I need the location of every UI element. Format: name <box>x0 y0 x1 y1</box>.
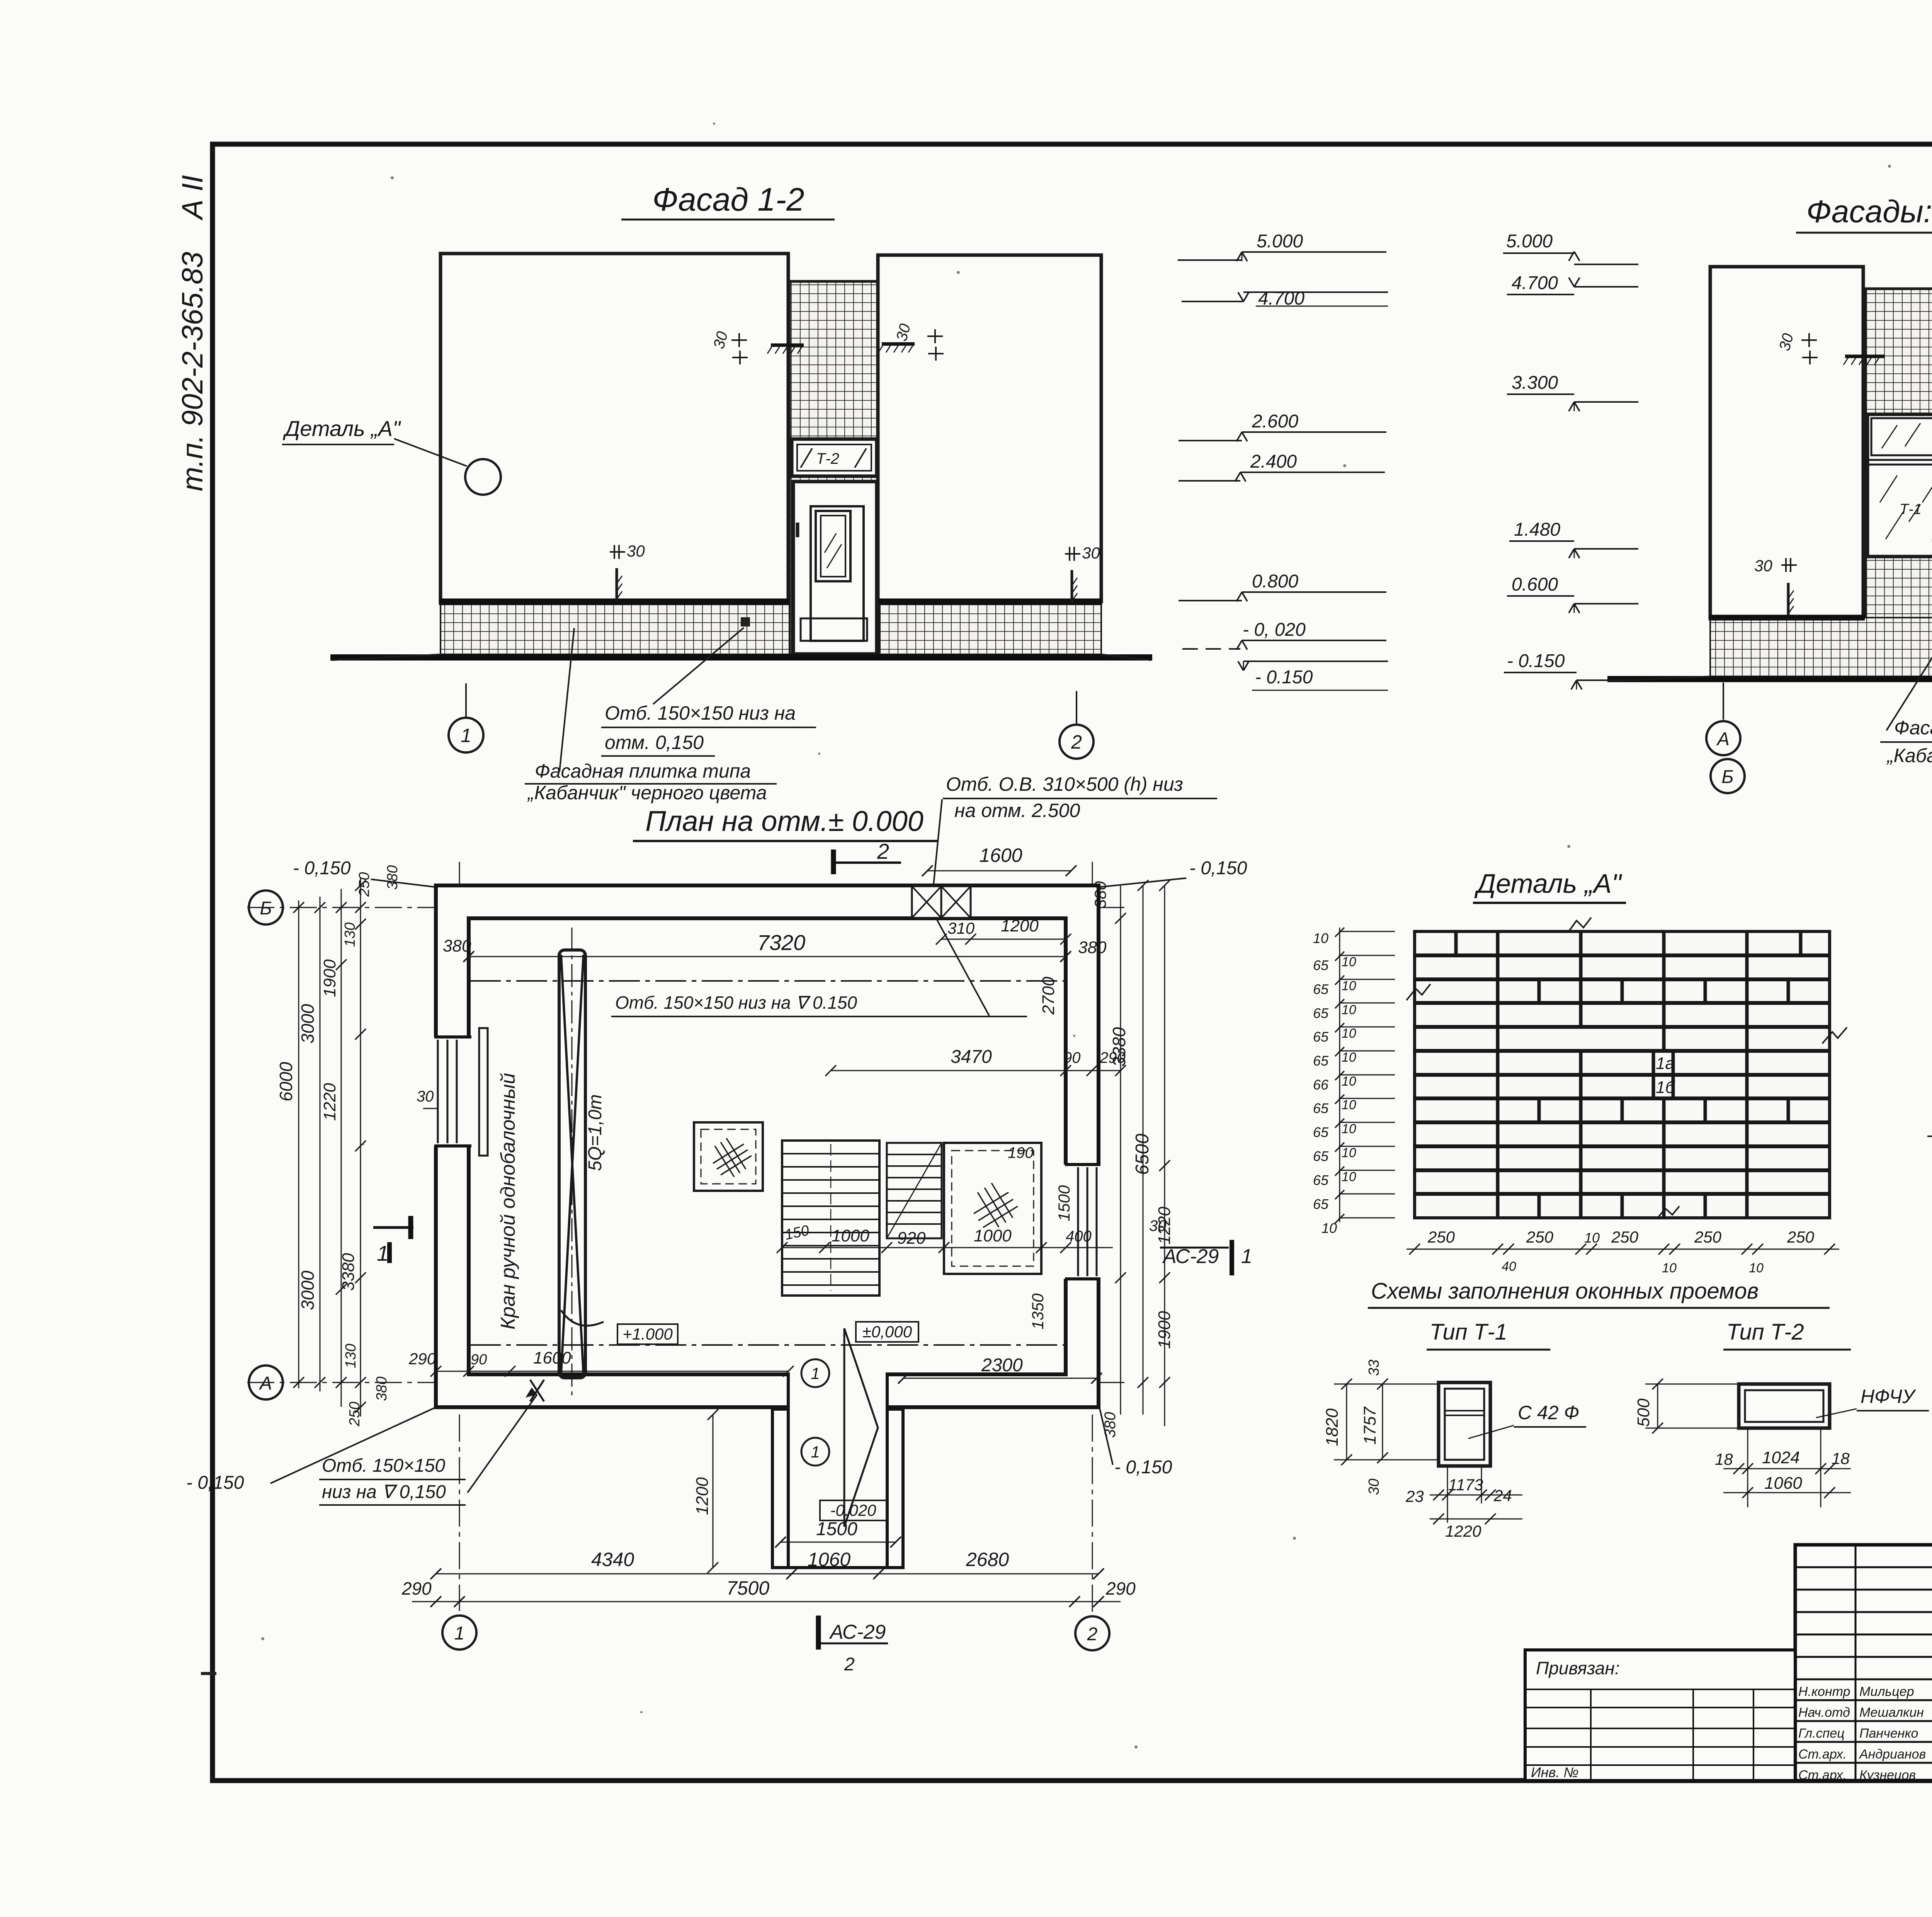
brick vertical joints row4 <box>1498 1003 1747 1027</box>
level box 0.000 <box>856 1322 918 1342</box>
label Отб.150x150 низ <box>601 702 816 756</box>
svg-text:Кран ручной однобалочный: Кран ручной однобалочный <box>497 1073 519 1330</box>
svg-text:1500: 1500 <box>1055 1185 1073 1221</box>
svg-text:65: 65 <box>1313 1029 1329 1045</box>
svg-text:- 0,150: - 0,150 <box>1114 1457 1172 1478</box>
crane label <box>497 1073 605 1330</box>
elevation mark 2.400 <box>1179 451 1385 482</box>
fold mark left <box>201 1672 216 1675</box>
svg-text:250: 250 <box>1611 1228 1639 1246</box>
svg-text:10: 10 <box>1342 955 1356 969</box>
left wall panel AB <box>1709 267 1865 618</box>
svg-text:А: А <box>1716 729 1730 749</box>
svg-text:Тип Т-1: Тип Т-1 <box>1430 1319 1507 1345</box>
right dim chain lines <box>1115 880 1170 1426</box>
svg-text:1220: 1220 <box>320 1083 339 1121</box>
svg-text:Ст.арх.: Ст.арх. <box>1798 1747 1847 1762</box>
dim 2300 <box>898 1355 1102 1384</box>
svg-text:290: 290 <box>1105 1578 1136 1599</box>
svg-text:Н.контр: Н.контр <box>1798 1684 1850 1699</box>
svg-text:Инв. №: Инв. № <box>1531 1764 1578 1780</box>
svg-text:10: 10 <box>1342 1074 1356 1089</box>
elevation mark 0.600 AB <box>1507 574 1638 613</box>
marker 30 lower-left AB <box>1754 557 1797 615</box>
svg-text:на отм. 2.500: на отм. 2.500 <box>954 800 1080 821</box>
svg-text:10: 10 <box>1342 979 1356 993</box>
svg-text:30: 30 <box>627 542 645 560</box>
svg-text:1820: 1820 <box>1323 1408 1342 1446</box>
side stamp text <box>176 175 209 491</box>
brick panel outline <box>1415 931 1830 1218</box>
svg-text:3000: 3000 <box>298 1270 318 1310</box>
svg-text:1.480: 1.480 <box>1514 519 1560 540</box>
axis circle 1 bottom <box>442 1616 476 1650</box>
svg-text:10: 10 <box>1342 1098 1356 1112</box>
svg-text:290: 290 <box>408 1350 436 1368</box>
left wall panel <box>439 254 790 602</box>
elevation mark 5.000 AB <box>1503 231 1638 264</box>
svg-text:65: 65 <box>1313 1100 1329 1116</box>
elevation mark 1.480 AB <box>1509 519 1638 558</box>
elevation mark 5.000 <box>1178 231 1386 261</box>
svg-text:250: 250 <box>1427 1228 1455 1246</box>
right wall panel <box>876 255 1102 602</box>
svg-text:Кузнецов: Кузнецов <box>1859 1768 1916 1783</box>
title Тип Т-2 <box>1723 1319 1851 1350</box>
svg-text:2: 2 <box>844 1654 855 1675</box>
label Отб 150х150 низ на 0.150 top <box>611 920 1027 1016</box>
svg-text:Т-1: Т-1 <box>1900 501 1922 518</box>
svg-text:250: 250 <box>1526 1228 1554 1246</box>
brick vertical joints row6 with 1a <box>1498 1051 1747 1075</box>
plinth hole 150x150 <box>653 617 750 704</box>
brick vertical joints row7 with 1б <box>1498 1075 1747 1098</box>
label Фасадная плитка AB <box>1880 653 1932 766</box>
svg-text:2.600: 2.600 <box>1252 411 1298 432</box>
svg-text:2680: 2680 <box>966 1549 1009 1570</box>
svg-text:Б: Б <box>1721 767 1733 787</box>
elevation mark 3.300 AB <box>1507 373 1638 411</box>
plinth right <box>880 604 1101 654</box>
corner level -0.150 bottom-left <box>186 1408 435 1493</box>
svg-text:90: 90 <box>1063 1049 1081 1066</box>
marker 30 lower-left <box>610 542 645 601</box>
svg-text:65: 65 <box>1313 1196 1329 1212</box>
marker 30 upper-left AB <box>1776 332 1818 364</box>
svg-text:0.600: 0.600 <box>1512 574 1558 595</box>
svg-text:- 0,150: - 0,150 <box>186 1473 244 1493</box>
plan inner wall <box>469 918 1066 1374</box>
svg-text:С 42 Ф: С 42 Ф <box>1518 1402 1579 1423</box>
stairs flight 2 <box>887 1143 942 1238</box>
detail A left dims <box>1313 928 1395 1236</box>
svg-text:500: 500 <box>1634 1398 1653 1427</box>
svg-text:1а: 1а <box>1656 1054 1675 1073</box>
svg-text:250: 250 <box>1694 1228 1722 1246</box>
svg-text:Мильцер: Мильцер <box>1859 1684 1914 1699</box>
svg-text:30: 30 <box>417 1088 434 1105</box>
svg-text:4340: 4340 <box>591 1549 634 1570</box>
svg-text:1: 1 <box>811 1364 820 1382</box>
dim 1200 porch <box>693 1409 718 1573</box>
svg-text:2.400: 2.400 <box>1250 451 1297 472</box>
left dim texts <box>276 865 439 1427</box>
svg-text:1б: 1б <box>1656 1078 1675 1097</box>
mark АС-29 2 bottom <box>818 1616 888 1675</box>
ramp triangle and arrow <box>801 1328 878 1527</box>
svg-text:Мешалкин: Мешалкин <box>1859 1705 1924 1720</box>
svg-text:т.п. 902-2-365.83 А II: т.п. 902-2-365.83 А II <box>176 175 209 491</box>
level box +1.000 <box>617 1324 678 1344</box>
T-1 dims <box>1323 1360 1522 1540</box>
callout Деталь А <box>282 416 501 495</box>
svg-text:380: 380 <box>374 1377 390 1401</box>
elevation mark -0.150 <box>1238 661 1388 690</box>
svg-text:3380: 3380 <box>339 1253 358 1291</box>
brick vertical joints row3 half bricks <box>1498 979 1788 1003</box>
svg-text:7320: 7320 <box>757 930 806 955</box>
svg-text:1220: 1220 <box>1445 1522 1481 1540</box>
svg-text:1: 1 <box>454 1623 465 1644</box>
svg-text:Нач.отд: Нач.отд <box>1798 1705 1850 1720</box>
svg-text:1060: 1060 <box>808 1549 850 1570</box>
marker 30 lower-right <box>1065 544 1100 603</box>
axis circle А left <box>249 1365 283 1399</box>
hatch flag left AB <box>1844 356 1885 365</box>
top wall vent openings <box>912 886 971 918</box>
svg-text:290: 290 <box>1099 1049 1126 1066</box>
label НФЧУ <box>1816 1386 1929 1418</box>
svg-text:3.300: 3.300 <box>1512 373 1558 393</box>
svg-text:1757: 1757 <box>1361 1406 1379 1445</box>
svg-text:Отб. 150×150: Отб. 150×150 <box>322 1456 446 1476</box>
svg-text:7500: 7500 <box>726 1577 769 1599</box>
svg-text:10: 10 <box>1321 1220 1337 1236</box>
svg-text:3470: 3470 <box>951 1047 992 1067</box>
axis line А horizontal <box>247 1382 1128 1383</box>
svg-text:250: 250 <box>347 1402 363 1427</box>
break marks brick panel <box>1406 918 1847 1218</box>
svg-text:2: 2 <box>877 839 889 863</box>
svg-text:1000: 1000 <box>974 1226 1012 1245</box>
svg-text:Панченко: Панченко <box>1859 1726 1918 1741</box>
window T-1 <box>1867 414 1932 557</box>
svg-text:1060: 1060 <box>1764 1474 1802 1493</box>
marker 30 upper-right <box>893 322 944 361</box>
svg-text:Отб. 150×150 низ на: Отб. 150×150 низ на <box>605 702 796 724</box>
svg-text:Фасад 1-2: Фасад 1-2 <box>652 181 804 218</box>
svg-text:„Кабанчик" черного цвета: „Кабанчик" черного цвета <box>1886 745 1932 766</box>
level box -0.020 <box>820 1500 886 1520</box>
svg-text:380: 380 <box>443 936 471 955</box>
scan speckles <box>261 123 1932 1748</box>
svg-text:АС-29: АС-29 <box>1162 1245 1219 1268</box>
svg-text:5.000: 5.000 <box>1257 231 1303 252</box>
porch walls <box>772 1409 903 1568</box>
svg-text:Схемы заполнения оконных пр: Схемы заполнения оконных проемов <box>1371 1279 1759 1304</box>
dim bottom inner 290 90 1600 <box>408 1348 794 1377</box>
right dim texts <box>1029 977 1174 1438</box>
svg-text:Фасадная плитка типа: Фасадная плитка типа <box>535 760 751 782</box>
svg-text:5Q=1,0т: 5Q=1,0т <box>585 1094 605 1171</box>
svg-text:30: 30 <box>1366 1479 1382 1495</box>
binding table Привязан <box>1525 1650 1795 1781</box>
svg-text:- 0,150: - 0,150 <box>1189 858 1247 878</box>
title Фасады А-Б и Б-А <box>1796 194 1932 233</box>
svg-text:Фасады: А-Б и Б-А: Фасады: А-Б и Б-А <box>1806 194 1932 229</box>
brick vertical joints row8 half bricks <box>1498 1098 1788 1122</box>
svg-text:- 0.150: - 0.150 <box>1507 651 1565 671</box>
svg-text:130: 130 <box>342 923 358 947</box>
svg-text:3000: 3000 <box>298 1004 318 1044</box>
dim 4340 1060 2680 <box>430 1549 1104 1579</box>
svg-text:30: 30 <box>1082 544 1100 562</box>
svg-text:65: 65 <box>1313 957 1329 973</box>
axis circle Б left <box>249 890 283 924</box>
svg-text:23: 23 <box>1405 1487 1424 1505</box>
elevation mark 2.600 <box>1179 411 1386 441</box>
svg-text:10: 10 <box>1662 1261 1677 1275</box>
svg-text:Отб. О.В. 310×500 (h) низ: Отб. О.В. 310×500 (h) низ <box>946 773 1183 795</box>
tile pier strip AB <box>1865 289 1932 677</box>
brick horizontal joints <box>1415 955 1830 1194</box>
svg-text:10: 10 <box>1342 1003 1356 1017</box>
svg-text:НФЧУ: НФЧУ <box>1861 1386 1917 1407</box>
section mark 1 left <box>373 1216 413 1265</box>
title Деталь А <box>1473 868 1626 903</box>
brick vertical joints row11 <box>1498 1170 1747 1194</box>
svg-text:1200: 1200 <box>693 1477 712 1515</box>
svg-text:380: 380 <box>384 865 401 890</box>
brick vertical joints row10 <box>1498 1146 1747 1170</box>
svg-text:18: 18 <box>1715 1450 1733 1468</box>
title Схемы заполнения <box>1368 1279 1830 1308</box>
svg-text:6500: 6500 <box>1132 1134 1153 1175</box>
svg-text:- 0,150: - 0,150 <box>293 858 351 878</box>
dim 290 7500 290 <box>401 1577 1136 1607</box>
door <box>793 482 877 654</box>
elevation mark -0,020 <box>1182 620 1386 650</box>
svg-text:1024: 1024 <box>1762 1448 1800 1467</box>
left dim chain lines <box>293 877 366 1416</box>
plan outer wall <box>436 885 1099 1407</box>
axis line 2 vertical <box>1092 862 1093 1612</box>
brick vertical joints row9 <box>1498 1122 1747 1146</box>
svg-text:400: 400 <box>1066 1228 1092 1245</box>
svg-text:1: 1 <box>461 725 471 746</box>
svg-text:+1.000: +1.000 <box>622 1325 673 1343</box>
svg-text:Отб. 150×150 низ на ∇ 0.150: Отб. 150×150 низ на ∇ 0.150 <box>615 993 857 1013</box>
crane runway axis <box>571 928 573 1399</box>
svg-text:10: 10 <box>1342 1170 1356 1184</box>
svg-text:250: 250 <box>1787 1228 1815 1246</box>
svg-text:30: 30 <box>1149 1217 1167 1234</box>
section mark 2 top <box>833 839 901 874</box>
svg-text:190: 190 <box>1008 1144 1034 1161</box>
svg-text:10: 10 <box>1313 930 1328 946</box>
svg-text:65: 65 <box>1313 981 1329 997</box>
svg-text:Т-2: Т-2 <box>816 450 839 467</box>
svg-text:1: 1 <box>1241 1245 1252 1268</box>
label Отб 150х150 bottom <box>319 1380 544 1505</box>
label С42Ф <box>1468 1402 1586 1439</box>
svg-text:130: 130 <box>343 1344 359 1368</box>
svg-text:низ на ∇ 0,150: низ на ∇ 0,150 <box>322 1482 446 1502</box>
svg-text:Фасадная плитка типа: Фасадная плитка типа <box>1894 717 1932 739</box>
ground line AB <box>1607 676 1932 681</box>
interior dash line upper <box>470 980 1065 982</box>
title План на отм <box>633 805 938 841</box>
svg-text:18: 18 <box>1832 1449 1850 1468</box>
interior dash line lower <box>470 1344 1065 1346</box>
axis line 1 vertical <box>459 862 460 1611</box>
brick vertical joints row2 <box>1498 955 1747 979</box>
svg-text:10: 10 <box>1342 1026 1356 1041</box>
top dim 1600 <box>922 844 1109 908</box>
title Фасад 1-2 <box>621 181 835 220</box>
svg-text:2300: 2300 <box>981 1355 1023 1376</box>
svg-text:290: 290 <box>401 1578 432 1599</box>
svg-text:10: 10 <box>1749 1261 1764 1275</box>
svg-text:±0,000: ±0,000 <box>862 1323 912 1341</box>
dim row mid 150 1000 920 1000 400 <box>777 1144 1113 1253</box>
label Фасадная плитка <box>525 628 777 804</box>
svg-text:1350: 1350 <box>1029 1293 1047 1330</box>
window T-1 scheme <box>1439 1382 1490 1466</box>
hatch flag left of strip <box>767 345 804 354</box>
svg-text:1600: 1600 <box>533 1348 571 1367</box>
svg-text:Деталь „А": Деталь „А" <box>282 416 401 441</box>
label Фасадная сторона <box>1927 1103 1932 1158</box>
svg-text:1600: 1600 <box>979 844 1022 866</box>
svg-text:65: 65 <box>1313 1005 1329 1021</box>
svg-text:Тип Т-2: Тип Т-2 <box>1726 1319 1804 1345</box>
bottom wall door opening <box>788 1371 887 1410</box>
svg-text:0.800: 0.800 <box>1252 571 1298 592</box>
window T-2 scheme <box>1739 1384 1830 1428</box>
transom window T-2 <box>792 439 877 476</box>
right wall window <box>1063 1165 1102 1279</box>
axis line Б horizontal <box>247 907 1128 908</box>
svg-text:380: 380 <box>1078 938 1107 957</box>
stairs flight 1 <box>782 1141 879 1296</box>
svg-text:Привязан:: Привязан: <box>1536 1658 1620 1678</box>
svg-text:- 0, 020: - 0, 020 <box>1243 620 1306 640</box>
svg-text:6000: 6000 <box>276 1062 296 1102</box>
svg-text:24: 24 <box>1493 1486 1512 1505</box>
svg-text:66: 66 <box>1313 1077 1329 1093</box>
dim 3470 90 290 <box>825 1047 1126 1076</box>
brick vertical joints row12 half bricks <box>1498 1194 1747 1218</box>
svg-text:65: 65 <box>1313 1053 1329 1069</box>
brick vertical joints row5 <box>1498 1027 1747 1051</box>
svg-text:920: 920 <box>897 1229 926 1248</box>
svg-text:10: 10 <box>1342 1122 1356 1136</box>
svg-text:Ст.арх.: Ст.арх. <box>1798 1768 1847 1783</box>
axis circle 2 facade <box>1060 691 1094 759</box>
svg-text:380: 380 <box>1091 881 1109 908</box>
corner level -0.150 bottom-right <box>1100 1408 1172 1478</box>
svg-text:10: 10 <box>1584 1230 1600 1246</box>
axis circles A/Б left <box>1706 683 1745 793</box>
marker 30 upper-left <box>710 330 748 364</box>
section mark АС-29 1 right <box>1160 1240 1252 1275</box>
svg-text:-0.020: -0.020 <box>830 1501 876 1519</box>
tile pier strip <box>789 281 880 655</box>
svg-text:Деталь „А": Деталь „А" <box>1474 868 1622 899</box>
svg-text:1: 1 <box>377 1241 389 1265</box>
svg-text:1200: 1200 <box>1001 916 1039 935</box>
plinth AB <box>1710 618 1932 678</box>
svg-text:5.000: 5.000 <box>1506 231 1553 252</box>
corner level -0.150 top-left <box>293 858 435 887</box>
svg-text:310: 310 <box>947 919 975 937</box>
title Тип Т-1 <box>1427 1319 1550 1350</box>
T-2 dims <box>1634 1379 1851 1507</box>
signature grid table <box>1795 1545 1932 1781</box>
hatch square 2 <box>944 1143 1041 1274</box>
svg-text:Гл.спец: Гл.спец <box>1798 1726 1845 1741</box>
hatch flag right of strip <box>878 344 915 352</box>
detail A bottom dims <box>1406 1228 1839 1275</box>
svg-text:2: 2 <box>1087 1624 1098 1645</box>
corner level -0.150 top-right <box>1100 858 1247 887</box>
elevation mark 0.800 <box>1179 571 1386 601</box>
svg-text:10: 10 <box>1342 1050 1356 1065</box>
svg-text:2: 2 <box>1071 731 1082 753</box>
svg-text:1: 1 <box>811 1443 820 1461</box>
crane beam <box>559 950 604 1378</box>
svg-text:1000: 1000 <box>832 1226 869 1245</box>
svg-text:АС-29: АС-29 <box>829 1621 886 1643</box>
svg-text:1900: 1900 <box>1155 1311 1174 1349</box>
ground line facade 1-2 <box>330 654 1152 660</box>
dim 7320 <box>443 930 1107 962</box>
left wall window <box>433 1028 488 1156</box>
elevation mark 4.700 AB <box>1507 273 1638 295</box>
svg-text:„Кабанчик" черного цвета: „Кабанчик" черного цвета <box>527 782 767 804</box>
svg-text:2700: 2700 <box>1039 977 1058 1015</box>
svg-text:65: 65 <box>1313 1172 1329 1188</box>
elevation mark 4.700 <box>1182 288 1388 309</box>
svg-text:- 0.150: - 0.150 <box>1255 667 1313 688</box>
svg-text:250: 250 <box>356 872 372 897</box>
axis circle 2 bottom <box>1075 1616 1109 1650</box>
svg-text:1500: 1500 <box>816 1519 857 1539</box>
hatch square 1 <box>694 1122 763 1191</box>
signature names <box>1798 1684 1926 1783</box>
drawing frame <box>213 144 1932 1781</box>
svg-text:Андрианов: Андрианов <box>1859 1747 1926 1762</box>
svg-text:65: 65 <box>1313 1148 1329 1164</box>
svg-text:90: 90 <box>471 1352 487 1368</box>
svg-text:Б: Б <box>260 898 272 919</box>
svg-text:40: 40 <box>1502 1259 1516 1274</box>
svg-text:А: А <box>259 1373 272 1394</box>
svg-text:30: 30 <box>1754 557 1772 575</box>
label Отб О.В.310х500 <box>930 773 1217 916</box>
brick vertical joints row1 <box>1456 931 1801 955</box>
svg-text:65: 65 <box>1313 1124 1329 1140</box>
svg-text:4.700: 4.700 <box>1512 273 1558 293</box>
svg-text:План на отм.± 0.000: План на отм.± 0.000 <box>645 805 923 837</box>
elevation mark -0.150 AB <box>1504 651 1641 690</box>
svg-text:отм. 0,150: отм. 0,150 <box>605 732 704 753</box>
svg-text:33: 33 <box>1366 1360 1382 1376</box>
plinth left <box>440 604 789 654</box>
dim 310 1200 <box>936 916 1071 945</box>
dim 1500 porch <box>775 1519 901 1548</box>
